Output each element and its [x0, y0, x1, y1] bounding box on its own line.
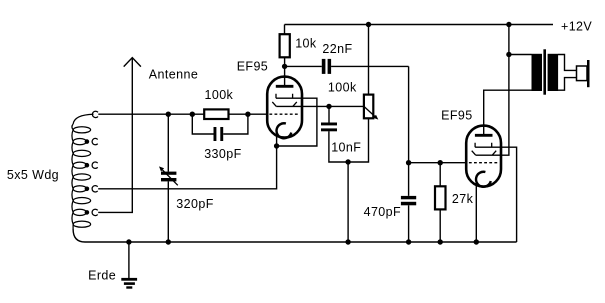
- svg-text:100k: 100k: [328, 80, 357, 94]
- svg-text:330pF: 330pF: [204, 147, 241, 161]
- svg-text:10k: 10k: [295, 37, 317, 51]
- svg-text:320pF: 320pF: [176, 197, 213, 211]
- svg-text:22nF: 22nF: [322, 42, 352, 56]
- svg-text:5x5 Wdg: 5x5 Wdg: [7, 168, 59, 182]
- svg-text:27k: 27k: [452, 192, 474, 206]
- svg-text:EF95: EF95: [441, 109, 472, 123]
- svg-text:10nF: 10nF: [331, 141, 361, 155]
- svg-text:470pF: 470pF: [364, 205, 401, 219]
- svg-text:Antenne: Antenne: [149, 68, 198, 82]
- svg-text:Erde: Erde: [88, 269, 116, 283]
- svg-text:EF95: EF95: [237, 60, 268, 74]
- svg-text:+12V: +12V: [561, 19, 592, 33]
- svg-text:100k: 100k: [205, 88, 234, 102]
